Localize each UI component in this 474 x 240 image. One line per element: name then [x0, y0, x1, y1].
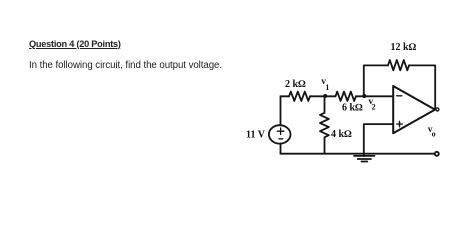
op-amp U1: [393, 86, 435, 133]
node v2 dot: [362, 94, 366, 98]
wire plus input to ground riser: [364, 124, 393, 156]
svg-text:6 kΩ: 6 kΩ: [342, 102, 363, 113]
resistor R1 2k zigzag: [289, 92, 310, 101]
wire top rail left segment: [281, 95, 290, 97]
resistor R2 4k vertical: [320, 96, 329, 153]
voltage source VS 11V: [269, 125, 291, 143]
resistor R3 6k zigzag: [336, 92, 357, 101]
wire source top to top rail: [280, 96, 282, 125]
output stub and terminal: [435, 109, 437, 111]
ground: [354, 156, 375, 162]
feedback wire right leg down to output: [409, 65, 435, 109]
bottom terminal circle: [435, 152, 439, 156]
svg-text:2 kΩ: 2 kΩ: [285, 79, 306, 90]
svg-text:2: 2: [372, 103, 376, 112]
svg-text:1: 1: [325, 83, 329, 92]
wire source bottom to bottom rail: [280, 144, 282, 154]
minus sign: [397, 95, 402, 97]
wire 6k to node v2 and op-amp: [356, 95, 393, 97]
node v1 dot: [323, 94, 327, 98]
feedback wire v2 up and right: [364, 65, 388, 95]
svg-text:12 kΩ: 12 kΩ: [391, 42, 417, 53]
svg-text:4 kΩ: 4 kΩ: [331, 129, 352, 140]
svg-text:o: o: [432, 130, 436, 139]
plus sign: [397, 121, 402, 126]
bottom rail: [281, 153, 436, 155]
svg-text:11 V: 11 V: [246, 130, 266, 141]
resistor R4 12k zigzag: [388, 60, 409, 70]
wire 2k to node v1: [310, 95, 336, 97]
